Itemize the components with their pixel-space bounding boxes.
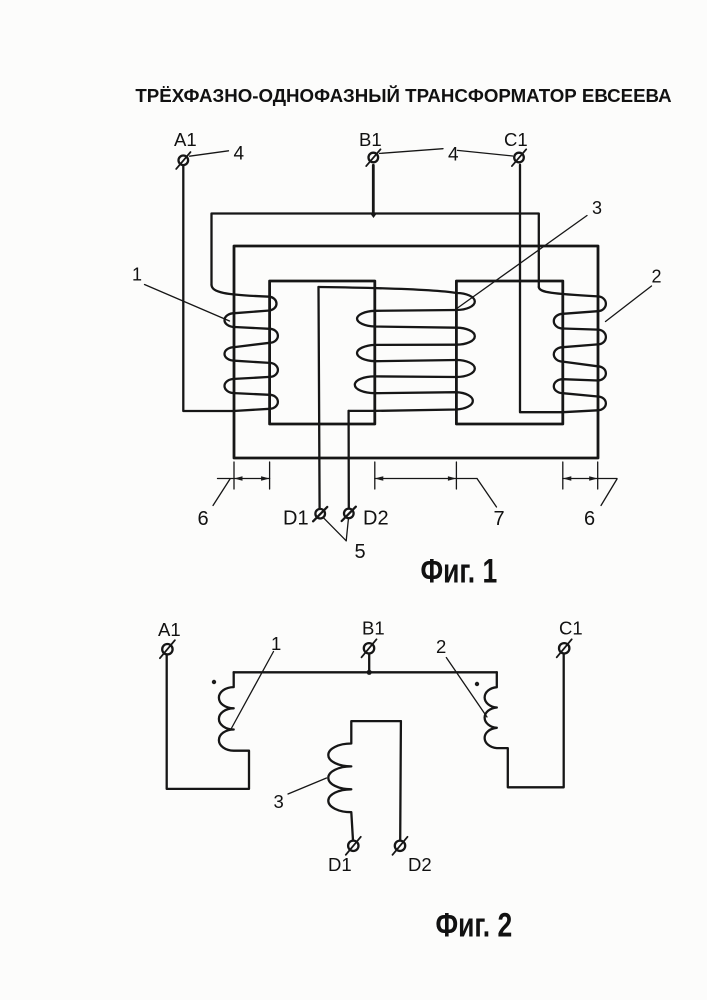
wire outer loop (net 4): left drop into coil1, top run, right drop into coil2 (212, 214, 539, 288)
svg-text:ТРЁХФАЗНО-ОДНОФАЗНЫЙ ТРАНСФОРМ: ТРЁХФАЗНО-ОДНОФАЗНЫЙ ТРАНСФОРМАТОР ЕВСЕЕ… (135, 85, 671, 106)
dimension 6 (left limb width) (198, 476, 270, 530)
svg-text:D1: D1 (328, 854, 352, 875)
svg-text:6: 6 (584, 508, 595, 530)
terminal D1 (fig2) (328, 837, 361, 875)
terminal B1 (359, 129, 382, 166)
svg-text:C1: C1 (559, 618, 583, 639)
junction dot on bus (367, 670, 372, 675)
core outer rectangle (234, 246, 598, 458)
svg-text:4: 4 (448, 145, 459, 166)
polarity dot winding 2 (475, 682, 479, 686)
svg-text:Фиг. 2: Фиг. 2 (436, 906, 513, 944)
svg-text:4: 4 (234, 144, 245, 165)
label 2 with leader to coil2 (606, 267, 662, 322)
svg-text:D2: D2 (363, 508, 389, 530)
label 3 with leader to coil3 (458, 198, 603, 308)
label 3 (fig2) with leader (274, 778, 327, 812)
coil 3 (winding on center limb) (319, 287, 475, 411)
wire bus (top run fig2) (234, 671, 497, 673)
wire A1 down and right to coil1 finish (183, 165, 233, 411)
terminal B1 (fig2) (362, 618, 385, 658)
wire B1 down to outer loop (372, 165, 375, 213)
svg-text:2: 2 (436, 636, 446, 657)
dimension 6 (right limb width) (563, 476, 617, 530)
dimension extension lines under core (234, 462, 598, 489)
svg-text:B1: B1 (359, 129, 382, 150)
terminal A1 (fig2) (158, 619, 181, 658)
svg-text:5: 5 (355, 541, 366, 563)
terminal D1 (283, 507, 327, 530)
label 5 with leaders from D1 and D2 (324, 518, 366, 563)
label 1 (fig2) with leader (231, 633, 282, 730)
terminal D2 (fig2) (393, 837, 432, 875)
svg-text:B1: B1 (362, 618, 385, 639)
svg-text:6: 6 (198, 508, 209, 530)
wire D2 drop (fig2) (399, 721, 402, 840)
label 4 (right) with leaders to B1 and C1 (380, 145, 513, 166)
svg-text:D1: D1 (283, 508, 309, 530)
label 1 with leader to coil1 (132, 265, 230, 322)
junction arrowhead at B1 wire end (370, 214, 376, 218)
terminal C1 (fig2) (557, 618, 583, 658)
svg-text:2: 2 (652, 267, 662, 287)
svg-text:D2: D2 (408, 854, 432, 875)
svg-text:A1: A1 (158, 619, 181, 640)
terminal A1 (174, 129, 197, 169)
svg-text:1: 1 (132, 265, 142, 285)
wire D1 drop from coil3 start (319, 287, 320, 509)
wire D2 drop from coil3 finish (347, 411, 349, 509)
label 4 (left) with leader (190, 144, 245, 165)
label 2 (fig2) with leader (436, 636, 487, 717)
core window right (456, 281, 562, 424)
core window left (270, 281, 375, 424)
svg-text:Фиг. 1: Фиг. 1 (421, 552, 498, 590)
polarity dot winding 1 (212, 680, 216, 684)
terminal C1 (504, 129, 528, 166)
terminal D2 (342, 507, 389, 530)
coil 1 (winding on left limb) (212, 285, 278, 411)
wire C1 down and right to coil2 finish (520, 165, 563, 412)
dimension 7 (center limb width) (375, 476, 505, 530)
inductor 3 (fig2 secondary winding) with leads to D1 (328, 721, 401, 840)
svg-text:3: 3 (274, 791, 284, 812)
svg-text:C1: C1 (504, 129, 528, 150)
coil 2 (winding on right limb) (539, 287, 606, 412)
inductor 1 (fig2 left winding) + return to A1 (167, 655, 249, 789)
svg-text:1: 1 (271, 633, 281, 654)
inductor 2 (fig2 right winding) + return to C1 (485, 654, 564, 788)
svg-text:A1: A1 (174, 129, 197, 150)
svg-text:7: 7 (494, 508, 505, 530)
wire B1 drop to bus (368, 654, 370, 673)
svg-text:3: 3 (592, 198, 602, 218)
